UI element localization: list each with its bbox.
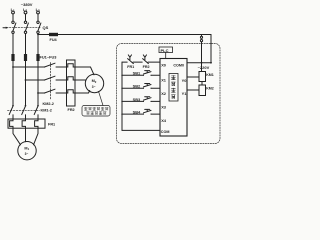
svg-text:KM2: KM2 [206, 87, 214, 91]
svg-text:COM0: COM0 [173, 63, 184, 67]
svg-text:L3: L3 [36, 7, 40, 13]
svg-text:M1: M1 [24, 147, 29, 152]
svg-text:FR1: FR1 [48, 122, 55, 126]
svg-text:QS: QS [43, 25, 49, 30]
svg-text:FU1~FU3: FU1~FU3 [40, 54, 58, 59]
svg-text:3~: 3~ [25, 152, 29, 156]
svg-text:COM: COM [161, 130, 170, 134]
svg-text:FU4: FU4 [50, 38, 58, 42]
svg-text:L2: L2 [23, 7, 27, 13]
svg-text:SB2: SB2 [133, 84, 141, 89]
svg-text:M2: M2 [92, 79, 97, 84]
svg-text:X2: X2 [161, 91, 167, 96]
svg-text:FR2: FR2 [68, 108, 75, 112]
svg-text:FR2: FR2 [143, 65, 150, 69]
svg-text:KM1: KM1 [206, 73, 214, 77]
svg-text:KM1-2: KM1-2 [41, 108, 52, 112]
svg-text:SB1: SB1 [133, 71, 141, 76]
svg-text:SB4: SB4 [133, 110, 141, 115]
svg-text:SB3: SB3 [133, 97, 141, 102]
svg-text:X4: X4 [161, 118, 167, 123]
svg-text:~220V: ~220V [198, 65, 210, 70]
svg-text:3~: 3~ [92, 85, 96, 89]
svg-text:X1: X1 [161, 77, 167, 82]
svg-text:KM2-2: KM2-2 [43, 102, 54, 106]
svg-text:X3: X3 [161, 104, 167, 109]
svg-text:Y1: Y1 [182, 91, 188, 96]
svg-text:Y0: Y0 [182, 78, 187, 83]
svg-text:FR1: FR1 [127, 65, 134, 69]
svg-text:L1: L1 [11, 7, 15, 13]
svg-text:PLC: PLC [161, 48, 169, 53]
svg-text:X0: X0 [161, 62, 166, 67]
